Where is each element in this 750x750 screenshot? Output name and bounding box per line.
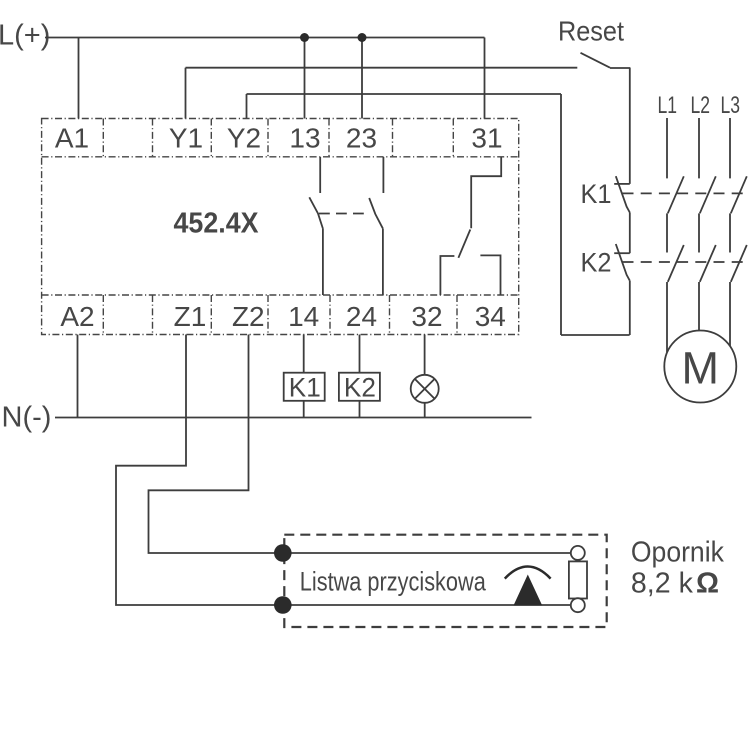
- svg-text:K1: K1: [581, 179, 612, 209]
- contact K2 aux blade: [616, 244, 630, 281]
- wire Y2 loop: [247, 93, 562, 95]
- resistor body: [569, 561, 587, 598]
- relay box outline: [42, 119, 519, 335]
- wire 14 to K1 coil: [303, 335, 305, 373]
- contact 23-24 blade: [369, 198, 383, 229]
- wire Reset to K1 chain: [610, 67, 630, 69]
- svg-text:L2: L2: [691, 92, 711, 119]
- coil K1 box: [284, 373, 325, 401]
- contact K2 aux bar: [614, 252, 630, 254]
- wire drop to 13: [304, 38, 306, 119]
- wire Z2 to strip: [149, 335, 283, 554]
- relay bottom row dividers: [103, 295, 457, 335]
- wire loop bottom: [561, 334, 630, 336]
- wire drop to Y2: [246, 94, 248, 119]
- wire 24 to K2 coil: [359, 335, 361, 373]
- svg-text:13: 13: [289, 123, 320, 154]
- svg-text:23: 23: [346, 123, 377, 154]
- wire 32 to lamp: [424, 335, 426, 375]
- contact K1 aux blade: [616, 176, 630, 212]
- coil K2 box: [339, 373, 380, 401]
- svg-text:34: 34: [475, 301, 506, 332]
- svg-text:K1: K1: [289, 373, 321, 403]
- svg-text:M: M: [682, 343, 720, 394]
- junction dot at 13 drop: [300, 33, 309, 42]
- contact K2 pole1 blade: [668, 245, 684, 282]
- contact K2 pole2 blade: [700, 245, 716, 282]
- strip upper line: [283, 552, 572, 554]
- relay top row separator: [42, 156, 519, 158]
- svg-text:24: 24: [346, 301, 377, 332]
- pushbutton strip dashed box: [284, 535, 606, 627]
- wire Y1 to Reset: [186, 67, 578, 69]
- contact 23-24 top lead: [382, 157, 384, 193]
- wire drop to 31: [484, 38, 486, 119]
- relay top row dividers: [103, 119, 453, 157]
- svg-text:32: 32: [411, 301, 442, 332]
- wire L1 phase: [666, 118, 668, 352]
- contact K1 pole2 blade: [700, 176, 716, 213]
- contact K1 pole3 blade: [731, 176, 747, 213]
- svg-text:31: 31: [471, 123, 502, 154]
- mech link K1 row: [623, 192, 749, 194]
- wire drop to A1: [78, 38, 80, 119]
- relay bottom row separator: [42, 294, 519, 296]
- svg-text:N(-): N(-): [2, 402, 52, 434]
- svg-text:Z2: Z2: [232, 301, 265, 332]
- svg-text:Ω: Ω: [696, 567, 719, 599]
- wire A2 to N: [77, 335, 79, 418]
- svg-text:L3: L3: [720, 92, 740, 119]
- svg-text:8,2 k: 8,2 k: [631, 567, 693, 599]
- svg-text:A1: A1: [55, 123, 89, 154]
- wire K2 aux down: [629, 281, 631, 335]
- motor M circle: [664, 331, 736, 403]
- junction dot lower: [274, 596, 292, 614]
- svg-text:Listwa przyciskowa: Listwa przyciskowa: [300, 567, 487, 597]
- junction dot at 23 drop: [358, 33, 367, 42]
- pushbutton triangle: [514, 575, 543, 606]
- svg-text:Z1: Z1: [174, 301, 207, 332]
- lamp cross: [415, 379, 435, 399]
- svg-text:Reset: Reset: [558, 16, 624, 47]
- svg-text:Y1: Y1: [169, 123, 203, 154]
- strip lower line: [283, 604, 572, 606]
- svg-text:Opornik: Opornik: [631, 537, 724, 569]
- contact 13-14 blade: [309, 197, 323, 228]
- svg-text:452.4X: 452.4X: [174, 208, 260, 240]
- contact 31-32-34 blade: [458, 230, 470, 258]
- wire drop to 23: [361, 38, 363, 119]
- contact 13-14 top lead: [319, 157, 321, 193]
- wire K1 coil to N: [303, 401, 305, 418]
- contact 31 lead: [471, 157, 501, 228]
- wire K2 coil to N: [359, 401, 361, 418]
- svg-text:K2: K2: [344, 373, 376, 403]
- lamp circle: [411, 375, 439, 403]
- contact 13-14 bottom lead: [322, 229, 324, 295]
- resistor bottom terminal: [571, 598, 585, 612]
- contact K1 pole1 blade: [668, 176, 684, 213]
- pushbutton arc: [505, 567, 551, 579]
- wire L(+) bus: [45, 37, 485, 39]
- svg-text:L1: L1: [658, 92, 678, 119]
- switch Reset blade: [581, 53, 611, 68]
- svg-text:14: 14: [288, 301, 319, 332]
- wire drop to Y1: [185, 68, 187, 119]
- contact K2 pole3 blade: [731, 245, 747, 282]
- contact K1 aux top lead: [629, 68, 631, 184]
- wire K1 to K2 aux: [629, 213, 631, 254]
- contact 34 seat: [480, 255, 500, 295]
- mech link 13-23: [319, 213, 369, 215]
- contact K1 aux bar: [614, 183, 630, 185]
- svg-text:Y2: Y2: [227, 123, 261, 154]
- junction dot upper: [274, 544, 292, 562]
- wire N bus: [55, 417, 532, 419]
- wire L3 phase: [729, 118, 731, 348]
- svg-text:K2: K2: [581, 248, 612, 278]
- wire lamp to N: [424, 403, 426, 418]
- contact 32 seat: [440, 256, 454, 295]
- wire Z1 to strip: [116, 335, 283, 606]
- contact 23-24 bottom lead: [382, 229, 384, 295]
- svg-text:L(+): L(+): [0, 20, 50, 52]
- svg-text:A2: A2: [60, 301, 94, 332]
- wire loop down: [560, 94, 562, 335]
- resistor top terminal: [571, 546, 585, 560]
- mech link K2 row: [623, 261, 749, 263]
- wire L2 phase: [698, 118, 700, 332]
